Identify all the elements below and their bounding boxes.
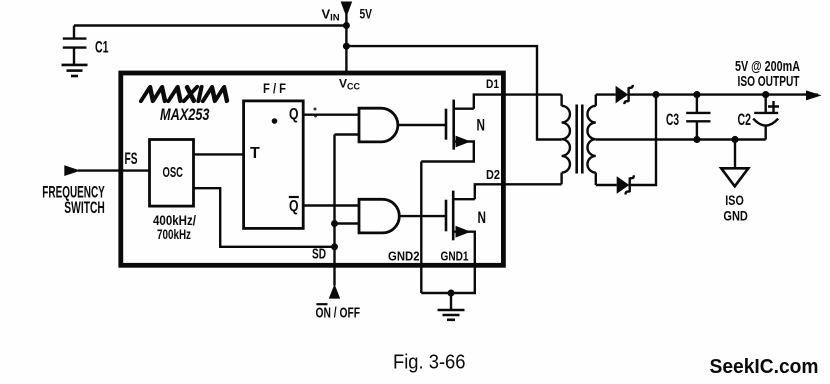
svg-text:C2: C2 <box>738 111 752 129</box>
frequency switch input arrow <box>64 165 80 176</box>
node D4-rail junction <box>652 91 659 98</box>
diode D3 (schottky top) <box>616 86 629 104</box>
transformer T1 primary winding <box>562 95 570 185</box>
ON/OFF input arrow <box>329 284 340 299</box>
and-gate U2b bottom <box>359 199 399 233</box>
svg-text:F / F: F / F <box>263 80 286 96</box>
svg-text:SeekIC.com: SeekIC.com <box>710 355 819 378</box>
ISO ground symbol <box>721 168 748 186</box>
wire D4 cathode up to +5V rail <box>631 95 657 185</box>
label + (C2 polarity) <box>768 101 779 112</box>
svg-text:D2: D2 <box>486 167 500 182</box>
ground (GND1/GND2) <box>438 310 465 320</box>
wire ISO ground rail (secondary center tap) <box>596 138 766 140</box>
capacitor C1 <box>63 26 87 65</box>
wire Q to AND1 <box>303 113 359 115</box>
svg-text:Q: Q <box>289 198 299 215</box>
wire to ISO GND <box>734 140 736 169</box>
node SD-OSC junction <box>331 243 338 250</box>
svg-text:GND1: GND1 <box>441 250 469 264</box>
svg-text:SD: SD <box>312 247 326 263</box>
VIN 5V supply arrow <box>341 2 353 18</box>
svg-text:C3: C3 <box>666 111 679 129</box>
svg-text:SWITCH: SWITCH <box>64 199 105 217</box>
wire Q-bar to AND2 <box>303 204 359 206</box>
svg-text:C1: C1 <box>95 39 109 57</box>
node ISO GND junction <box>731 136 738 143</box>
svg-text:MAX253: MAX253 <box>160 105 210 124</box>
IC U1 MAX253 package outline <box>121 73 504 265</box>
svg-text:OSC: OSC <box>163 164 184 181</box>
artifact colon mark <box>314 108 317 111</box>
wire GND2 pin vertical <box>420 162 422 294</box>
transformer T1 core <box>577 105 583 174</box>
wire Q2 drain to D2 pin <box>475 184 562 199</box>
svg-text:5V: 5V <box>360 6 373 22</box>
svg-text:Q: Q <box>289 106 299 123</box>
wire secondary bottom to diode D4 <box>596 184 617 186</box>
svg-text:FS: FS <box>125 150 138 168</box>
svg-text:700kHz: 700kHz <box>157 226 191 242</box>
transistor Q2 (N-MOSFET bottom) <box>421 191 475 293</box>
wire SD / ON-OFF vertical line <box>335 135 359 286</box>
flip-flop F/F block <box>244 101 304 228</box>
label ON/OFF <box>316 303 327 305</box>
wire secondary top to diode D3 <box>596 93 616 95</box>
and-gate U2a top <box>359 108 398 142</box>
node source-ground junction <box>448 290 455 297</box>
svg-text:ISO OUTPUT: ISO OUTPUT <box>738 73 800 90</box>
svg-text:N: N <box>477 117 486 135</box>
transformer T1 secondary winding <box>587 95 595 185</box>
wire junction to ground <box>450 293 452 310</box>
diode D4 (schottky bottom) <box>617 176 630 194</box>
node C3 top junction <box>693 91 700 98</box>
wire D3 cathode to ISO +5V rail, output arrow <box>630 93 819 95</box>
wire OSC to SD node <box>194 188 335 247</box>
svg-text:Fig. 3-66: Fig. 3-66 <box>393 352 466 374</box>
wire: VIN vertical to VCC <box>345 14 347 73</box>
wire AND1 output to Q1 gate <box>398 124 446 126</box>
node SD-AND2 junction <box>331 220 338 227</box>
node VIN junction 2 <box>343 43 350 50</box>
dot inside flip-flop <box>272 118 278 124</box>
wire OSC to T input of flip-flop <box>194 153 244 155</box>
ground (at C1) <box>62 65 88 76</box>
wire Q1 drain to D1 pin <box>474 95 562 109</box>
svg-text:T: T <box>250 145 260 162</box>
wire FS input <box>78 169 150 171</box>
svg-text:N: N <box>478 209 487 227</box>
node C2 top junction <box>762 91 769 98</box>
node C3 bottom junction <box>693 136 700 143</box>
svg-text:GND2: GND2 <box>388 250 420 264</box>
logo MAXIM <box>141 87 230 101</box>
capacitor C3 <box>686 95 710 140</box>
capacitor C2 (polarized) <box>753 95 778 140</box>
wire SD to AND2 lower input <box>335 222 359 224</box>
wire: VIN to transformer primary center tap <box>346 46 561 139</box>
svg-text:ON / OFF: ON / OFF <box>316 304 361 321</box>
oscillator OSC block <box>150 140 194 207</box>
node VIN junction 1 <box>343 22 350 29</box>
wire AND2 output to Q2 gate <box>399 215 446 217</box>
svg-text:GND: GND <box>723 207 748 223</box>
svg-text:ISO: ISO <box>725 192 744 208</box>
svg-text:D1: D1 <box>486 79 500 91</box>
wire: C1 top rail to VIN node <box>74 24 346 26</box>
transistor Q1 (N-MOSFET top) <box>421 100 474 162</box>
